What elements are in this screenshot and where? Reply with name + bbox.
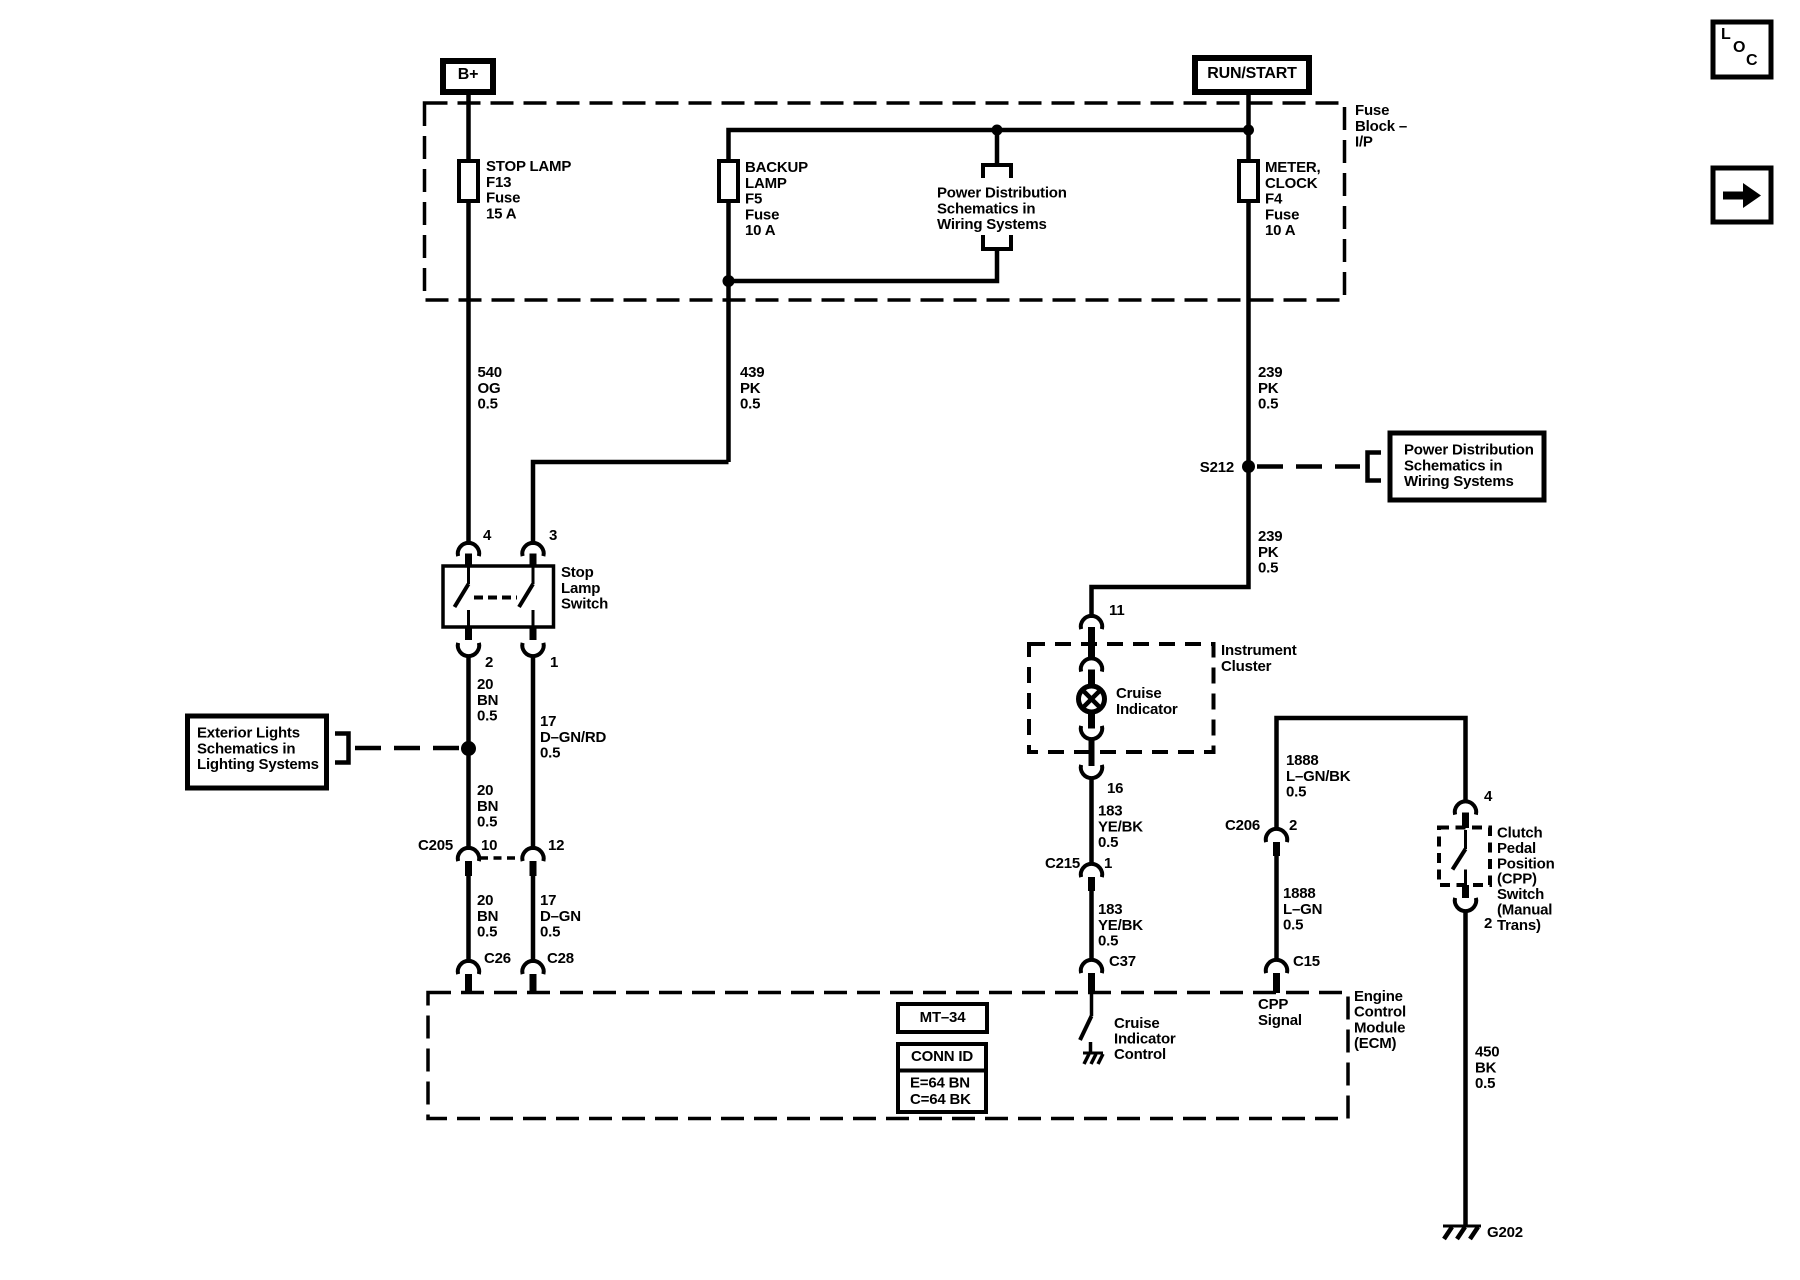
wire pin16 to C215 [1089, 778, 1094, 864]
svg-text:MT–34: MT–34 [920, 1009, 967, 1026]
wire C215 to C37 [1089, 891, 1094, 960]
svg-text:17D–GN0.5: 17D–GN0.5 [540, 892, 581, 941]
svg-text:CONN ID: CONN ID [911, 1048, 973, 1065]
wire C206 to C15 [1274, 856, 1279, 960]
svg-text:1: 1 [1104, 855, 1112, 872]
svg-text:12: 12 [548, 837, 564, 854]
svg-text:STOP LAMPF13Fuse15 A: STOP LAMPF13Fuse15 A [486, 158, 571, 222]
svg-text:E=64 BNC=64 BK: E=64 BNC=64 BK [910, 1075, 971, 1109]
connector C37 [1081, 960, 1102, 973]
svg-text:439PK0.5: 439PK0.5 [740, 364, 764, 413]
svg-text:C206: C206 [1225, 817, 1260, 834]
stop lamp switch pin2 lead [467, 610, 470, 627]
svg-text:4: 4 [483, 527, 492, 544]
engine control module dashed box [428, 993, 1348, 1119]
svg-text:BACKUPLAMPF5Fuse10 A: BACKUPLAMPF5Fuse10 A [745, 159, 808, 239]
svg-text:C: C [1746, 52, 1758, 69]
svg-text:4: 4 [1484, 788, 1493, 805]
ground G202 [1443, 1225, 1481, 1228]
svg-text:B+: B+ [458, 66, 479, 83]
wire 439 PK to switch pin 3 [533, 462, 729, 545]
connector CPP pin 2 [1462, 885, 1469, 898]
connector pin 3 [522, 543, 543, 556]
exterior lights reference box [188, 716, 327, 788]
connector C215 [1081, 864, 1102, 877]
svg-text:CPPSignal: CPPSignal [1258, 996, 1302, 1029]
svg-text:16: 16 [1107, 780, 1123, 797]
junction dot at RUN/START bus [1243, 125, 1254, 136]
svg-text:20BN0.5: 20BN0.5 [477, 782, 498, 831]
stop lamp switch pin3 lead [532, 566, 535, 584]
S212 dashed link [1257, 464, 1360, 469]
connector C15 [1266, 960, 1287, 973]
cruise indicator lamp top connector [1081, 658, 1102, 671]
reference box MT-34 [898, 1004, 987, 1032]
svg-text:1: 1 [550, 654, 558, 671]
svg-text:METER,CLOCKF4Fuse10 A: METER,CLOCKF4Fuse10 A [1265, 159, 1321, 239]
connector pin 4 [458, 543, 479, 556]
fuse F13 [459, 161, 478, 201]
connector C26 [458, 961, 479, 974]
wire pin2 to C205 [466, 656, 471, 850]
svg-text:O: O [1733, 39, 1745, 56]
svg-text:C37: C37 [1109, 953, 1136, 970]
svg-text:C15: C15 [1293, 953, 1320, 970]
stop lamp switch pin1 lead [532, 610, 535, 627]
svg-text:EngineControlModule(ECM): EngineControlModule(ECM) [1354, 988, 1406, 1052]
instrument cluster dashed box [1029, 644, 1214, 752]
svg-text:2: 2 [1289, 817, 1297, 834]
wire 1888 L-GN/BK [1277, 718, 1466, 830]
power distribution top bracket [983, 165, 1011, 178]
junction dot exterior lights [461, 741, 476, 756]
CPP switch dashed box [1439, 828, 1490, 886]
fuse block I/P dashed box [425, 103, 1345, 300]
stop lamp switch blade left [455, 584, 469, 607]
cruise indicator control blade [1080, 1016, 1092, 1040]
power distribution reference drop wire [995, 130, 1000, 166]
connector C28 [522, 961, 543, 974]
svg-text:183YE/BK0.5: 183YE/BK0.5 [1098, 901, 1143, 950]
CPP switch pin2 lead [1464, 870, 1467, 886]
cruise indicator control lead [1090, 993, 1094, 1016]
connector C205 left [458, 848, 479, 861]
svg-text:239PK0.5: 239PK0.5 [1258, 364, 1282, 413]
svg-text:InstrumentCluster: InstrumentCluster [1221, 642, 1297, 675]
connector pin 1 [530, 627, 537, 640]
svg-text:450BK0.5: 450BK0.5 [1475, 1044, 1499, 1093]
wire C205 to C26 [466, 876, 471, 963]
wire pin1 to C205 [531, 656, 536, 850]
power distribution return wire [729, 249, 998, 281]
svg-text:11: 11 [1109, 602, 1124, 619]
svg-text:StopLampSwitch: StopLampSwitch [561, 564, 608, 613]
connector CPP pin 4 [1455, 801, 1476, 814]
S212 bracket [1368, 453, 1382, 481]
svg-text:1888L–GN/BK0.5: 1888L–GN/BK0.5 [1286, 752, 1351, 801]
wire CPP to G202 [1463, 911, 1468, 1226]
svg-text:2: 2 [485, 654, 493, 671]
svg-text:Power DistributionSchematics i: Power DistributionSchematics inWiring Sy… [937, 185, 1067, 234]
connector pin 11 [1081, 616, 1102, 629]
svg-text:FuseBlock –I/P: FuseBlock –I/P [1355, 102, 1407, 151]
svg-text:183YE/BK0.5: 183YE/BK0.5 [1098, 803, 1143, 852]
stop lamp switch blade right [519, 584, 533, 607]
svg-text:1888L–GN0.5: 1888L–GN0.5 [1283, 885, 1322, 934]
svg-text:540OG0.5: 540OG0.5 [478, 364, 502, 413]
fuse F5 [719, 161, 738, 201]
svg-text:L: L [1721, 26, 1731, 43]
cluster pin 16 lead [1089, 739, 1095, 766]
fuse F4 [1239, 161, 1258, 201]
power distribution reference box [1390, 433, 1544, 500]
icon LOC box [1713, 22, 1771, 77]
cruise indicator lamp [1079, 686, 1105, 712]
svg-text:Exterior LightsSchematics inLi: Exterior LightsSchematics inLighting Sys… [197, 725, 319, 774]
svg-text:C26: C26 [484, 950, 511, 967]
fuse block bus wire [729, 130, 1249, 462]
power distribution bottom bracket [983, 235, 1011, 249]
svg-text:G202: G202 [1487, 1224, 1523, 1241]
svg-text:3: 3 [549, 527, 557, 544]
svg-text:C215: C215 [1045, 855, 1080, 872]
cruise indicator lamp bottom connector [1088, 714, 1095, 729]
svg-text:C205: C205 [418, 837, 453, 854]
svg-text:S212: S212 [1200, 459, 1234, 476]
stop lamp switch link dashed [474, 596, 517, 600]
exterior lights bracket [335, 734, 349, 763]
wire S212 to cluster pin 11 [1092, 467, 1249, 619]
connector C206 [1266, 829, 1287, 842]
svg-text:2: 2 [1484, 915, 1492, 932]
CPP switch blade [1453, 849, 1466, 870]
svg-text:ClutchPedalPosition(CPP)Switch: ClutchPedalPosition(CPP)Switch(ManualTra… [1497, 825, 1555, 934]
svg-text:20BN0.5: 20BN0.5 [477, 676, 498, 725]
icon forward arrow box [1713, 168, 1771, 222]
svg-text:20BN0.5: 20BN0.5 [477, 892, 498, 941]
svg-text:CruiseIndicatorControl: CruiseIndicatorControl [1114, 1015, 1176, 1063]
junction dot S212 [1242, 460, 1255, 473]
terminal box RUN/START wire [1246, 92, 1251, 470]
junction dot backup lamp wire [723, 275, 735, 287]
terminal box B+ [443, 61, 493, 92]
svg-text:17D–GN/RD0.5: 17D–GN/RD0.5 [540, 713, 606, 762]
reference box CONN ID [898, 1044, 986, 1112]
connector C205 right [522, 848, 543, 861]
connector pin 2 [465, 627, 472, 640]
svg-text:C28: C28 [547, 950, 574, 967]
CPP switch pin4 lead [1464, 830, 1467, 849]
cruise indicator control ground [1089, 1042, 1093, 1053]
terminal box RUN/START [1195, 58, 1309, 92]
svg-text:239PK0.5: 239PK0.5 [1258, 528, 1282, 577]
stop lamp switch box [443, 566, 554, 627]
power terminal B+ wire [466, 92, 471, 545]
exterior lights dashed link [355, 746, 461, 751]
connector C205 dashed link [480, 856, 521, 860]
wire C205 to C28 [531, 876, 536, 963]
connector pin 16 [1081, 765, 1102, 778]
svg-text:10: 10 [481, 837, 497, 854]
svg-text:Power DistributionSchematics i: Power DistributionSchematics inWiring Sy… [1404, 442, 1534, 491]
svg-text:CruiseIndicator: CruiseIndicator [1116, 685, 1178, 718]
stop lamp switch pin4 lead [467, 566, 470, 584]
junction dot at F5 bus [992, 125, 1003, 136]
svg-text:RUN/START: RUN/START [1207, 65, 1297, 82]
